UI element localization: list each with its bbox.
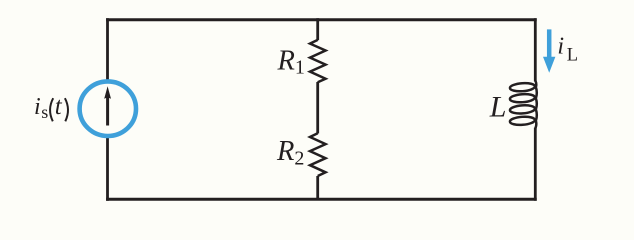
svg-text:L: L [489, 90, 507, 123]
current source IS [80, 81, 136, 136]
svg-text:L: L [567, 46, 578, 66]
label is(t) [34, 93, 68, 122]
wire top [106, 18, 537, 21]
current arrow iL [543, 29, 555, 72]
wire middle top [316, 18, 319, 40]
svg-text:s: s [41, 102, 48, 122]
svg-text:R2: R2 [276, 136, 304, 169]
resistor R2 [310, 133, 326, 176]
label iL [557, 33, 578, 65]
svg-text:i: i [557, 33, 564, 59]
current source arrow [104, 86, 111, 125]
svg-text:R1: R1 [277, 45, 305, 78]
wire bottom [106, 198, 537, 201]
svg-text:t: t [55, 93, 63, 120]
wire right upper [534, 18, 537, 81]
resistor R1 [310, 40, 326, 82]
wire left lower [106, 138, 109, 201]
wire left upper [106, 18, 109, 80]
wire middle bottom [316, 176, 319, 199]
inductor L [510, 81, 537, 129]
svg-text:i: i [34, 94, 41, 120]
wire middle mid [316, 82, 319, 134]
wire right lower [534, 128, 537, 201]
